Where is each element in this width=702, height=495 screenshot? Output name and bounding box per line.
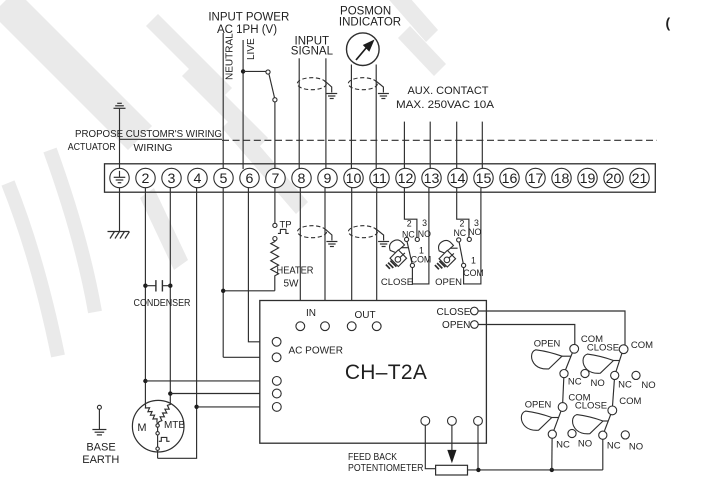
below-strip: ground under terminal 1 — [119, 188, 121, 232]
terminal circles 2-21 — [136, 168, 649, 187]
condenser C1 — [143, 284, 147, 288]
node: live junction dot — [241, 69, 245, 73]
wire: branch t2 to box pin — [145, 380, 272, 382]
svg-text:14: 14 — [450, 171, 466, 187]
svg-text:16: 16 — [502, 171, 518, 187]
wire: terminal 9 down to IN pin — [324, 188, 326, 322]
wire: terminal 4 down — [196, 188, 198, 407]
aux limit switch LS2 (OPEN) — [457, 188, 469, 237]
wire: terminal 11 down to OUT pin — [376, 188, 378, 322]
wire: TS2 NC down to TS4 COM — [613, 380, 615, 407]
svg-text:8: 8 — [298, 171, 306, 187]
cam follower for LS1 — [386, 240, 409, 269]
wire: terminal 6 down to AC POWER pin — [248, 188, 272, 342]
switch S1: live to terminal 7 — [243, 70, 266, 72]
svg-text:19: 19 — [580, 171, 596, 187]
wire: OPEN feed to travel switch chain L — [478, 325, 575, 345]
node: earth wire top symbol — [114, 103, 126, 108]
wire: TS4 NC down to bus end — [602, 439, 604, 470]
travel switch TS4 (CLOSE, row2 right) — [608, 406, 617, 415]
svg-text:4: 4 — [194, 171, 202, 187]
wire: earth stem to terminal 1 — [119, 108, 121, 169]
wire: neutral to AC POWER pin 2 — [223, 356, 272, 358]
feedback potentiometer — [425, 425, 435, 469]
svg-text:17: 17 — [528, 171, 544, 187]
svg-text:13: 13 — [424, 171, 440, 187]
box pins: feedback bottom — [421, 417, 430, 426]
wire: branch t4 to box pin — [197, 406, 273, 408]
svg-text:2: 2 — [142, 171, 150, 187]
box pins: AC POWER — [272, 337, 281, 346]
boundary line dashed — [222, 139, 657, 141]
aux limit switch LS1 (CLOSE) — [404, 188, 417, 237]
heater R1 5W — [271, 241, 279, 291]
motor winding left — [145, 381, 157, 424]
wire: terminal 10 down to OUT pin — [351, 188, 353, 322]
wire: input signal pair to terminals 8,9 — [298, 58, 300, 169]
wire: terminal 8 down to IN pin — [299, 188, 301, 322]
wire: TS3 NC down to bus — [551, 438, 553, 470]
wire: posmon pair to terminals 10,11 — [350, 65, 352, 170]
motor junction and thermal contact MTB — [156, 424, 159, 427]
controller box CH-T2A — [260, 301, 487, 444]
wire: branch t3 to box pin — [170, 393, 272, 395]
cam follower for LS2 — [435, 240, 458, 269]
wire: pot bottom bus — [468, 469, 603, 471]
wire: terminal 5 (neutral) down — [222, 188, 224, 357]
shield: OUT cable — [348, 226, 377, 238]
wire: aux feeds to terminals 12-15 — [403, 122, 405, 169]
svg-text:12: 12 — [398, 171, 414, 187]
svg-text:15: 15 — [476, 171, 492, 187]
svg-text:7: 7 — [272, 171, 280, 187]
svg-text:18: 18 — [554, 171, 570, 187]
shield: posmon cable — [348, 78, 377, 90]
wire: motor bottom to terminal 4 branch — [158, 407, 197, 459]
travel switch TS1 (OPEN, row1 left) — [570, 344, 579, 353]
svg-text:5: 5 — [220, 171, 228, 187]
watermark — [0, 0, 446, 356]
shield: IN cable — [298, 226, 327, 238]
wire: TS1 NC down to TS3 COM — [563, 378, 564, 403]
svg-text:6: 6 — [246, 171, 254, 187]
shield: input signal cable — [297, 78, 326, 90]
wire: terminal 2 down — [144, 188, 146, 381]
terminal strip — [105, 164, 656, 192]
svg-text:9: 9 — [324, 171, 332, 187]
thermal protector TP — [273, 223, 277, 227]
svg-text:3: 3 — [168, 171, 176, 187]
svg-text:10: 10 — [346, 171, 362, 187]
junction dots terminals 2,3,4 branches — [143, 379, 147, 383]
travel switch TS3 (OPEN, row2 left) — [558, 403, 567, 412]
svg-text:20: 20 — [606, 171, 622, 187]
wire: terminal 7 down to TP — [274, 188, 276, 223]
wire: terminal 3 down — [169, 188, 171, 394]
svg-text:21: 21 — [632, 171, 648, 187]
boundary line solid part — [120, 138, 223, 140]
motor M — [132, 400, 184, 452]
wire: neutral line to terminal 5 — [222, 33, 224, 169]
motor winding right — [158, 394, 170, 424]
svg-text:11: 11 — [372, 171, 387, 187]
meter: posmon indicator — [347, 33, 380, 66]
box pins: motor drive — [272, 377, 281, 386]
wire: CLOSE feed to travel switch chain R — [478, 311, 625, 345]
travel switch TS2 (CLOSE, row1 right) — [619, 345, 628, 354]
wire: heater bottom to neutral — [223, 290, 275, 292]
terminal 1 (earth) — [110, 168, 129, 187]
base earth symbol — [97, 405, 101, 409]
wire: live line to terminal 6 — [242, 40, 244, 169]
